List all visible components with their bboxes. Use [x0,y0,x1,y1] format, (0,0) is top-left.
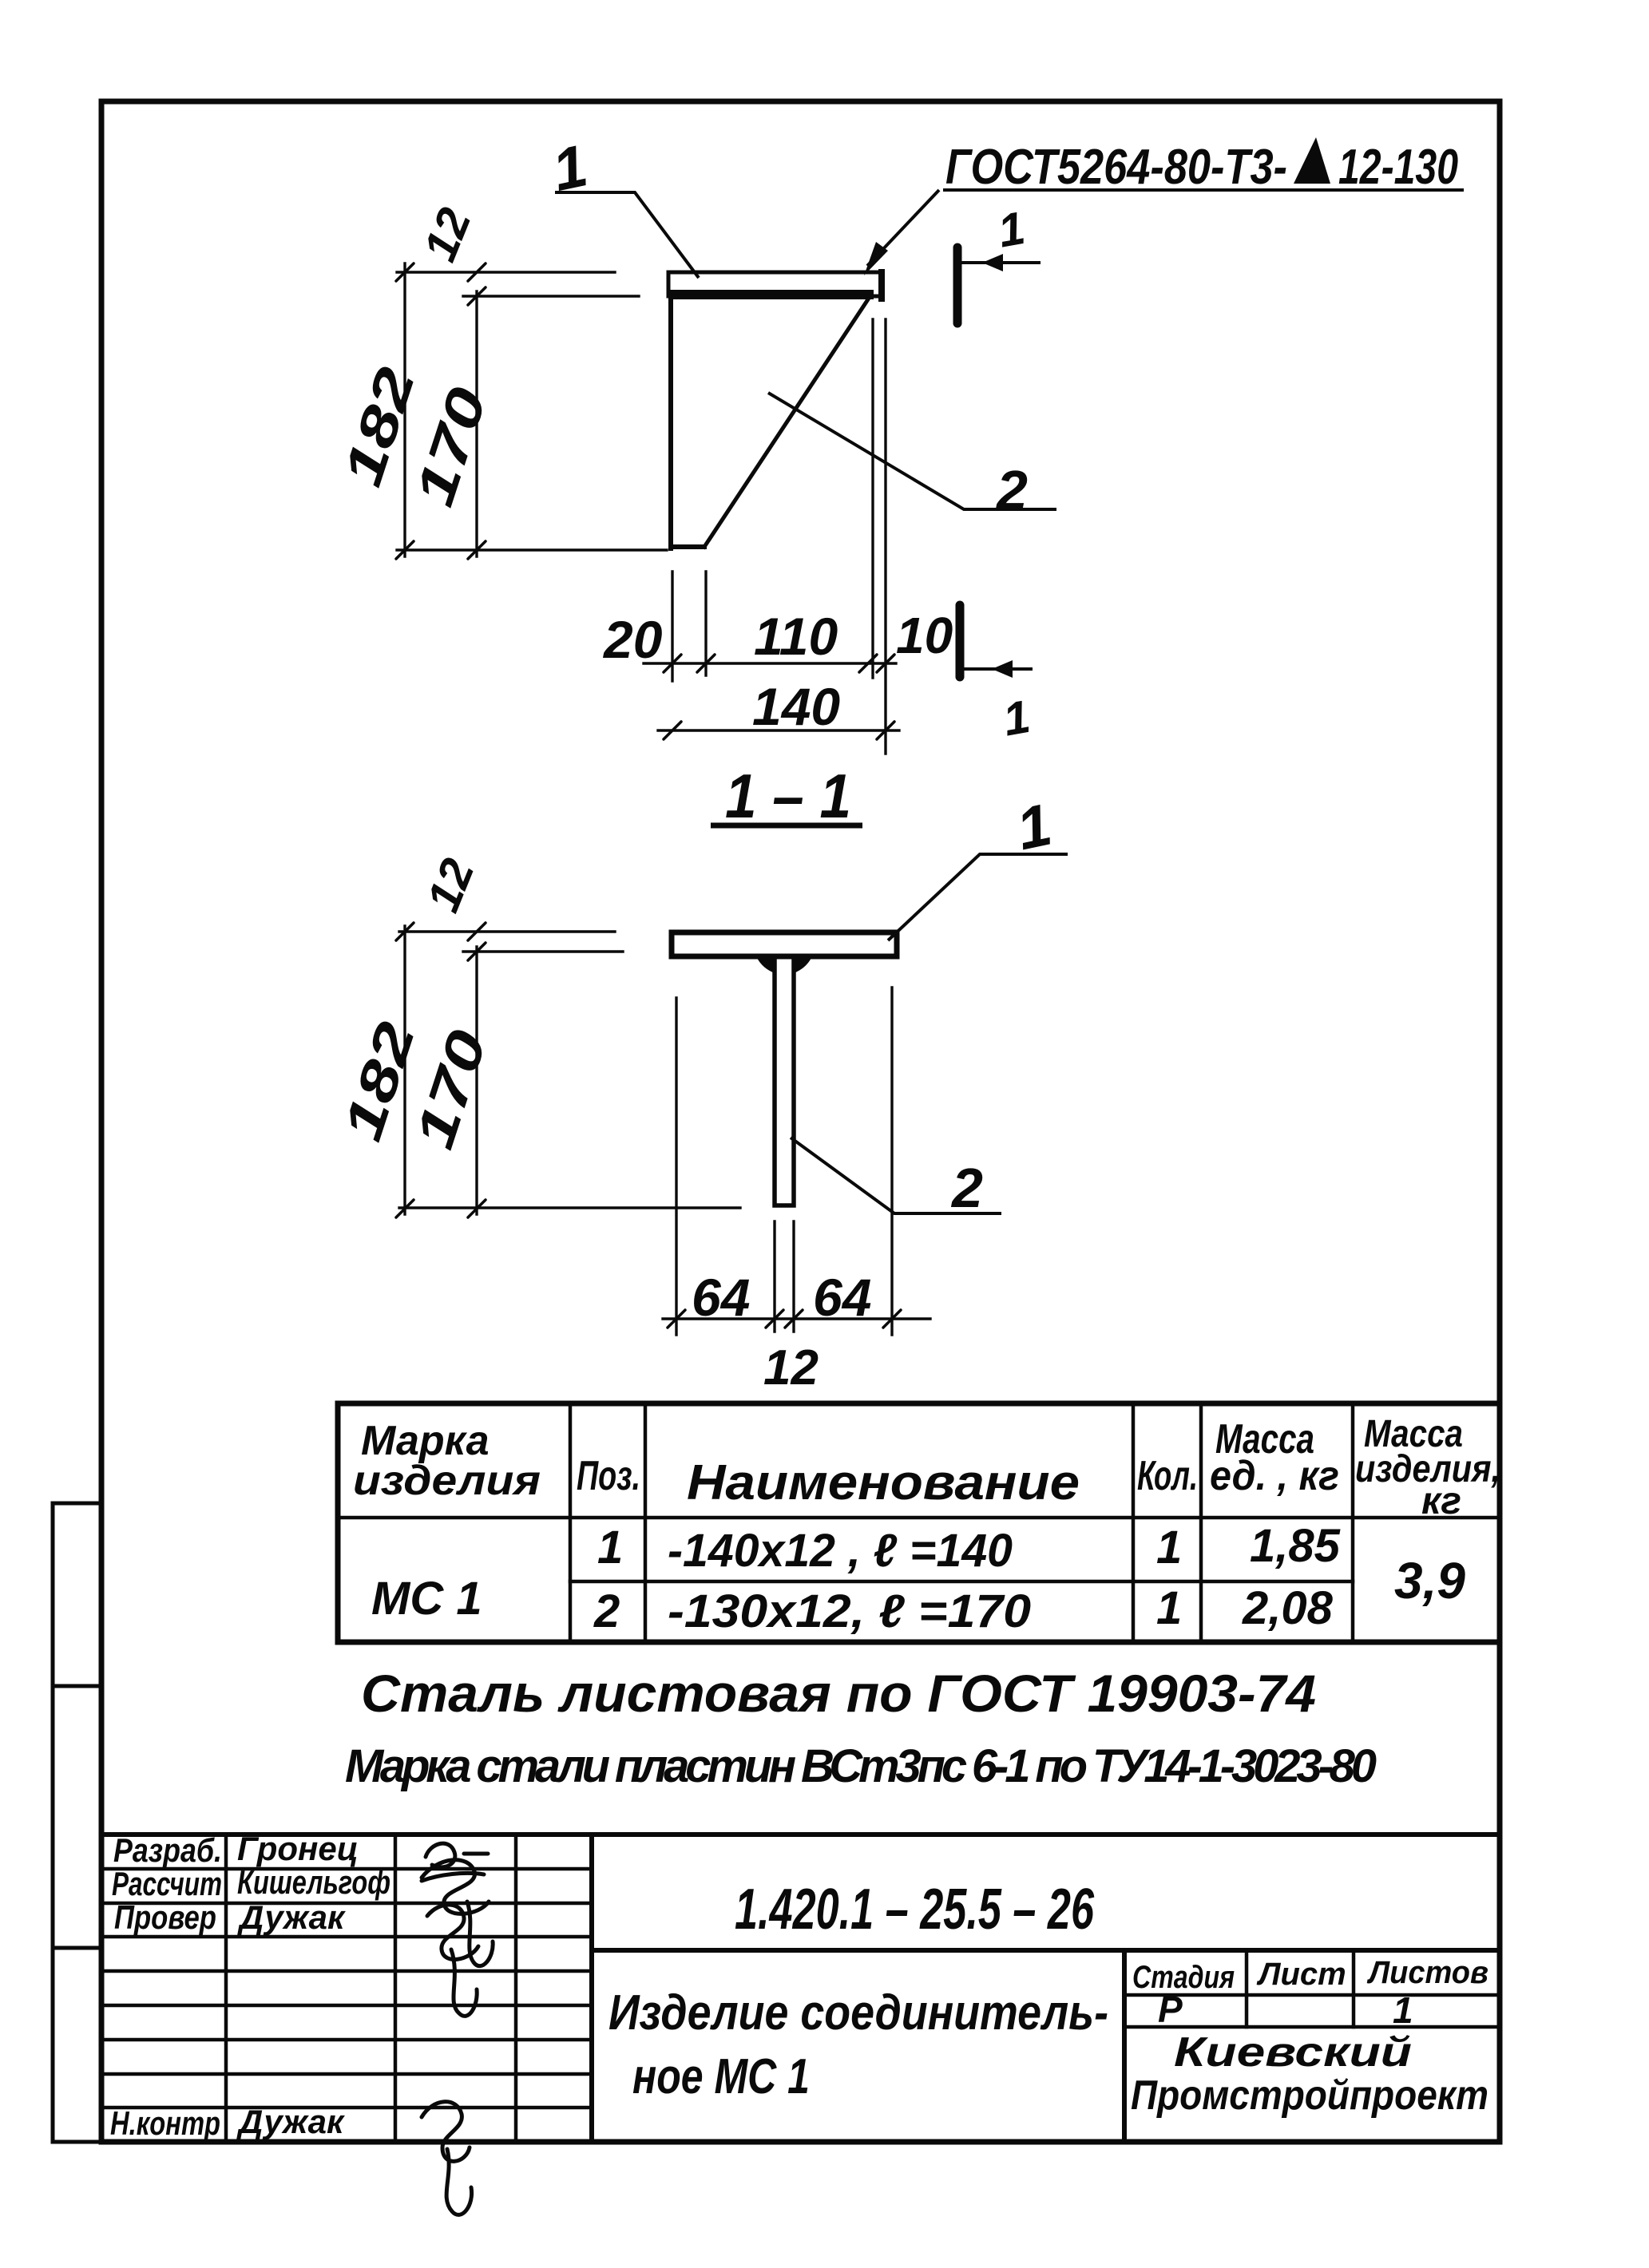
svg-text:Изделие соединитель-: Изделие соединитель- [608,1985,1108,2040]
svg-text:2: 2 [950,1157,983,1219]
svg-text:Кишельгоф: Кишельгоф [237,1863,390,1901]
svg-text:2: 2 [995,459,1028,521]
svg-text:Рассчит: Рассчит [112,1865,222,1902]
svg-text:-140х12 , ℓ =140: -140х12 , ℓ =140 [668,1525,1013,1577]
svg-text:ное МС 1: ное МС 1 [632,2049,810,2104]
svg-text:Наименование: Наименование [687,1455,1080,1510]
svg-text:1: 1 [1393,1989,1413,2031]
svg-text:Марка стали пластин ВСт3пс 6-1: Марка стали пластин ВСт3пс 6-1 по ТУ14-1… [345,1740,1377,1792]
svg-text:Провер: Провер [114,1898,216,1936]
svg-text:10: 10 [896,607,953,664]
svg-text:МС 1: МС 1 [371,1573,482,1625]
svg-text:Промстройпроект: Промстройпроект [1131,2072,1488,2119]
svg-text:1,85: 1,85 [1250,1520,1341,1572]
svg-text:ед. , кг: ед. , кг [1210,1453,1339,1499]
svg-text:64: 64 [813,1268,871,1327]
svg-text:-130х12, ℓ =170: -130х12, ℓ =170 [668,1585,1031,1637]
svg-text:Стадия: Стадия [1132,1960,1235,1995]
svg-text:Дужак: Дужак [236,2103,345,2140]
svg-text:Сталь листовая по ГОСТ 19903-7: Сталь листовая по ГОСТ 19903-74 [361,1664,1316,1723]
svg-text:1: 1 [597,1522,623,1573]
svg-text:1: 1 [1156,1522,1182,1573]
svg-text:Гронец: Гронец [237,1830,359,1867]
svg-text:Р: Р [1158,1989,1183,2030]
svg-text:2,08: 2,08 [1242,1582,1334,1634]
svg-text:Разраб.: Разраб. [113,1831,222,1869]
svg-text:12: 12 [763,1340,819,1395]
svg-text:1 – 1: 1 – 1 [725,761,851,831]
svg-text:Листов: Листов [1366,1955,1488,1990]
svg-text:кг: кг [1421,1480,1461,1522]
svg-text:ГОСТ5264-80-Т3-: ГОСТ5264-80-Т3- [945,140,1287,195]
svg-text:Поз.: Поз. [577,1453,640,1499]
svg-text:12-130: 12-130 [1338,140,1458,195]
svg-text:Дужак: Дужак [237,1898,346,1936]
svg-text:1.420.1 – 25.5 – 26: 1.420.1 – 25.5 – 26 [735,1878,1095,1941]
svg-text:110: 110 [754,607,838,666]
svg-text:3,9: 3,9 [1394,1552,1465,1609]
svg-text:20: 20 [602,610,663,669]
svg-text:2: 2 [593,1585,620,1637]
svg-text:изделия: изделия [353,1458,541,1504]
svg-text:Лист: Лист [1256,1957,1346,1992]
svg-text:1: 1 [1156,1582,1182,1634]
svg-text:64: 64 [692,1268,750,1327]
svg-text:Кол.: Кол. [1137,1453,1198,1499]
svg-text:Киевский: Киевский [1174,2029,1412,2076]
svg-text:Н.контр: Н.контр [110,2104,220,2142]
svg-text:140: 140 [752,677,840,736]
